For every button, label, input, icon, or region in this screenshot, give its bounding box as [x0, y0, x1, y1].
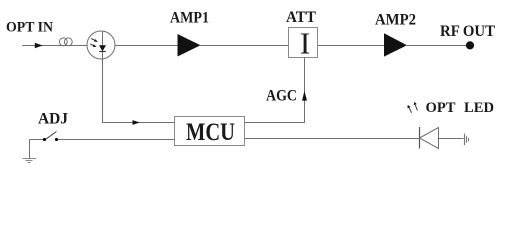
fiber coil: [59, 38, 72, 46]
wire: input to receiver circle: [22, 45, 87, 47]
svg-text:OPT IN: OPT IN: [6, 20, 53, 36]
input direction arrow: [35, 43, 43, 49]
svg-text:LED: LED: [464, 100, 494, 116]
wire: AMP1 to ATT: [200, 45, 288, 47]
LED OPT (diode): [420, 127, 464, 149]
RF OUT terminal dot: [466, 41, 474, 49]
AGC arrow (up): [302, 91, 307, 101]
svg-text:OPT: OPT: [426, 100, 456, 116]
svg-text:AMP2: AMP2: [375, 12, 416, 29]
svg-text:ADJ: ADJ: [38, 110, 68, 127]
ground (left): [23, 140, 37, 163]
wire: receiver to AMP1: [115, 45, 178, 47]
amplifier AMP2: [384, 33, 407, 56]
svg-text:I: I: [300, 26, 310, 61]
wire: MCU to AGC / ATT: [245, 58, 305, 123]
arrow on receiver-MCU wire: [133, 120, 141, 125]
ground (right, rotated): [465, 134, 469, 146]
svg-text:ATT: ATT: [286, 9, 316, 26]
wire: AMP2 to RF OUT: [407, 45, 467, 47]
wire: ATT to AMP2: [318, 45, 385, 47]
switch ADJ: [30, 132, 175, 142]
wire: MCU to LED: [245, 138, 420, 140]
attenuator ATT box: [289, 26, 318, 61]
svg-text:AGC: AGC: [266, 87, 297, 104]
svg-text:AMP1: AMP1: [170, 10, 209, 27]
optical receiver (photodiode in circle): [87, 31, 115, 59]
svg-text:RF OUT: RF OUT: [440, 23, 495, 40]
MCU block: [175, 117, 245, 147]
LED light arrows: [408, 102, 418, 113]
svg-text:MCU: MCU: [186, 119, 235, 146]
wire: receiver down to MCU: [103, 59, 175, 123]
amplifier AMP1: [178, 34, 201, 57]
